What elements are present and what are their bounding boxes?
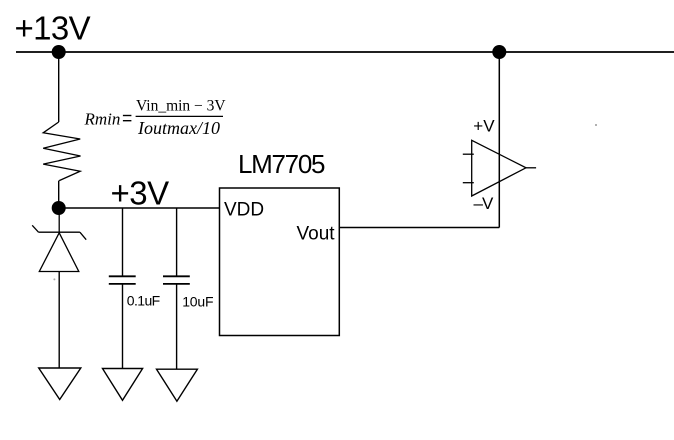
ground (C2) (157, 369, 198, 401)
svg-text:Vin_min − 3V: Vin_min − 3V (136, 98, 226, 115)
capacitor C2 10uF (163, 208, 190, 369)
formula Rmin label (84, 98, 227, 138)
node junction op-amp supply (492, 45, 506, 59)
resistor R1 (43, 122, 80, 181)
wire Vout to op-amp (339, 227, 499, 229)
wire bus to resistor (58, 52, 60, 122)
wire resistor to +3V node (58, 181, 60, 208)
svg-text:Vout: Vout (297, 224, 336, 245)
svg-text:VDD: VDD (224, 200, 264, 221)
wire zener to ground (58, 272, 60, 369)
wire op-amp supply vertical (498, 52, 500, 228)
svg-text:+3V: +3V (111, 175, 170, 212)
capacitor C1 0.1uF (109, 208, 136, 369)
svg-text:Ioutmax/10: Ioutmax/10 (137, 118, 220, 138)
zener diode D1 (32, 208, 86, 272)
node +3V junction (52, 201, 66, 215)
svg-text:10uF: 10uF (182, 294, 213, 310)
svg-text:+V: +V (473, 117, 495, 136)
svg-text:Rmin: Rmin (84, 110, 121, 129)
svg-text:–V: –V (474, 194, 494, 213)
svg-text:0.1uF: 0.1uF (127, 293, 160, 309)
wire +3V bus (59, 207, 220, 209)
IC U1 LM7705 box (220, 188, 340, 336)
op-amp U2 (463, 140, 536, 196)
ground (C1) (103, 369, 143, 401)
formula fraction bar (136, 115, 223, 117)
formula equals sign (123, 115, 131, 117)
svg-text:LM7705: LM7705 (238, 149, 325, 179)
artifact dot near op-amp (595, 124, 597, 126)
svg-text:+13V: +13V (15, 10, 91, 47)
ground (zener) (39, 368, 81, 400)
artifact dot below zener (53, 278, 55, 280)
node junction resistor top (52, 45, 66, 59)
wire top +13V bus (16, 51, 674, 53)
